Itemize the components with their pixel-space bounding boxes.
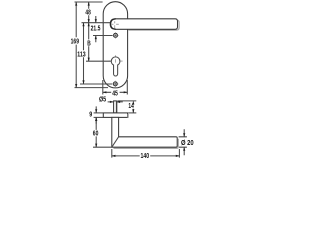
dimension 140: [112, 155, 180, 157]
svg-text:21.5: 21.5: [91, 26, 101, 33]
extension lines 140: [112, 149, 180, 158]
dimension 48: [88, 2, 90, 23]
extension lines Ø20: [179, 137, 187, 147]
side view: backplate edge shadow: [127, 114, 129, 118]
side view: backplate edge: [103, 113, 127, 118]
lever handle front view: [110, 19, 177, 30]
dimension 60: [95, 117, 97, 147]
hub arc (rose): [111, 19, 116, 29]
svg-text:14: 14: [128, 103, 134, 110]
dimension 21.5: [95, 16, 97, 42]
extension line plate top left: [94, 112, 104, 114]
side view: spindle stub shadow: [116, 102, 118, 112]
extension line grip bottom left: [93, 146, 112, 148]
side view: lever (neck + grip): [112, 117, 177, 147]
extension line plate top: [75, 1, 103, 3]
extension line plate bottom left: [94, 116, 104, 118]
svg-text:113: 113: [77, 51, 86, 59]
svg-text:60: 60: [93, 131, 99, 138]
dimension Ø20 arrows: [183, 129, 185, 155]
lever handle shadow (front view): [128, 20, 179, 30]
svg-text:Ø5: Ø5: [99, 96, 107, 104]
svg-text:140: 140: [141, 152, 150, 160]
side view: miter joint line: [112, 137, 119, 147]
svg-text:Ø 20: Ø 20: [181, 140, 194, 148]
svg-text:48: 48: [85, 10, 91, 17]
svg-text:B: B: [87, 41, 91, 48]
cylinder center marks: [109, 55, 123, 62]
euro profile cylinder hole: [111, 57, 120, 76]
extension line hub center: [82, 22, 111, 24]
svg-text:45: 45: [112, 91, 118, 98]
extension line stub top: [117, 100, 136, 102]
extension lines width 45: [103, 80, 128, 95]
svg-text:9: 9: [89, 111, 92, 119]
dimension 14: [132, 101, 134, 113]
top fixing screw: [114, 33, 118, 37]
extension line bottom screw: [80, 83, 112, 85]
side view: spindle stub: [114, 101, 117, 113]
extension line plate top right: [128, 112, 136, 114]
svg-text:169: 169: [71, 39, 80, 46]
hub center marks: [112, 21, 119, 28]
dimension 169: [75, 2, 77, 88]
backplate front view: [103, 2, 127, 88]
bottom fixing screw: [113, 82, 117, 86]
extension line plate bottom: [75, 87, 109, 89]
dimension Ø5: [108, 101, 123, 103]
dimension 45: [103, 91, 128, 93]
extension line cylinder center: [86, 60, 111, 62]
dimension B: [88, 23, 90, 62]
extension line top screw: [93, 35, 112, 37]
side view: lever shadow: [114, 139, 179, 149]
dimension 113: [83, 23, 85, 84]
dimension 9 arrows: [95, 106, 97, 123]
